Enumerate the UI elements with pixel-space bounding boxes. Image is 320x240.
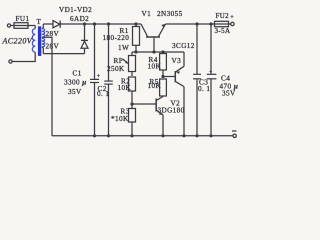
node VD2 rail [83, 22, 86, 25]
fuse FU1 [14, 23, 28, 29]
svg-text:AC220V: AC220V [2, 37, 33, 46]
svg-text:*10K: *10K [111, 115, 129, 123]
fuse FU2 [215, 21, 229, 26]
svg-text:250K: 250K [107, 65, 125, 73]
svg-text:3DG180: 3DG180 [158, 107, 185, 115]
resistor R5 [160, 79, 167, 96]
svg-text:+: + [209, 70, 213, 76]
wire center tap [42, 37, 52, 136]
wire secondary bottom to VD2 [43, 53, 84, 55]
svg-text:FU2: FU2 [216, 13, 230, 20]
transformer core [38, 26, 41, 56]
wire top rail right section [166, 23, 231, 25]
terminal AC input bottom [9, 60, 12, 63]
node V2 emitter bottom [161, 134, 164, 137]
svg-text:0. 1: 0. 1 [198, 85, 210, 93]
svg-text:3300 µ: 3300 µ [64, 79, 87, 87]
wire V1 base node [132, 51, 184, 53]
wire primary top corner [34, 26, 36, 29]
terminal AC input top [7, 24, 10, 27]
svg-text:0. 1: 0. 1 [97, 90, 109, 98]
transistor V1 [146, 36, 160, 38]
capacitor C2 [108, 24, 110, 81]
resistor R4 [162, 52, 164, 54]
svg-text:10K: 10K [148, 82, 162, 90]
svg-text:10K: 10K [148, 63, 162, 71]
transformer secondary winding upper [42, 29, 45, 38]
node R4 top [161, 50, 164, 53]
svg-text:10K: 10K [118, 84, 132, 92]
node C2 bottom [107, 134, 110, 137]
node V1 base [152, 50, 155, 53]
svg-text:180-220: 180-220 [103, 34, 130, 42]
capacitor C3 [196, 24, 198, 74]
node R1 rail [134, 22, 137, 25]
node C3 rail [195, 22, 198, 25]
node V3 base junction [161, 75, 164, 78]
node C3 bottom [195, 134, 198, 137]
resistor R1 [135, 24, 137, 27]
svg-text:3CG12: 3CG12 [172, 42, 195, 50]
svg-text:C4: C4 [221, 75, 230, 83]
svg-text:FU1: FU1 [16, 15, 30, 23]
transformer secondary winding lower [42, 38, 45, 47]
wire V2 base [132, 103, 156, 105]
wire secondary top to rail [42, 24, 45, 29]
node V2 base junction [130, 102, 133, 105]
node C1 bottom [93, 134, 96, 137]
node R3 bottom [130, 134, 133, 137]
node C4 rail [209, 22, 212, 25]
svg-text:1W: 1W [118, 44, 129, 52]
wire secondary bottom stub [42, 47, 43, 54]
potentiometer RP [131, 52, 133, 56]
terminal output plus [231, 22, 234, 25]
svg-text:T: T [37, 18, 42, 26]
terminal output minus [233, 134, 236, 137]
svg-text:C1: C1 [73, 70, 82, 78]
resistor R3 [129, 109, 136, 123]
svg-text:VD1-VD2: VD1-VD2 [59, 6, 92, 14]
wire rail to VD1 [43, 23, 53, 25]
wire [11, 25, 36, 27]
node R1 bottom [134, 50, 137, 53]
capacitor C1 [94, 24, 96, 79]
wire top rail left section [60, 23, 141, 25]
svg-text:35V: 35V [222, 90, 236, 98]
node C4 bottom [209, 134, 212, 137]
node C2 rail [107, 22, 110, 25]
svg-text:6AD2: 6AD2 [70, 15, 89, 23]
node C1 rail [93, 22, 96, 25]
svg-text:+: + [230, 14, 234, 21]
svg-text:35V: 35V [68, 88, 82, 96]
wire primary bottom [12, 52, 35, 61]
label output minus [232, 130, 237, 132]
transformer T primary winding [32, 29, 35, 53]
svg-text:+: + [97, 74, 101, 80]
svg-text:3-5A: 3-5A [215, 27, 231, 35]
diode VD1 [53, 21, 60, 28]
transistor V3 [163, 76, 175, 78]
node V3 collector bottom [182, 134, 185, 137]
diode VD2 [84, 24, 86, 40]
transistor V2 [155, 99, 157, 112]
svg-text:2N3055: 2N3055 [157, 10, 183, 18]
svg-text:RP: RP [114, 57, 124, 65]
svg-text:V3: V3 [172, 57, 182, 65]
resistor R2 [129, 77, 136, 91]
wire bottom rail [52, 135, 233, 137]
capacitor C4 [210, 24, 212, 74]
svg-text:V1: V1 [142, 10, 152, 18]
